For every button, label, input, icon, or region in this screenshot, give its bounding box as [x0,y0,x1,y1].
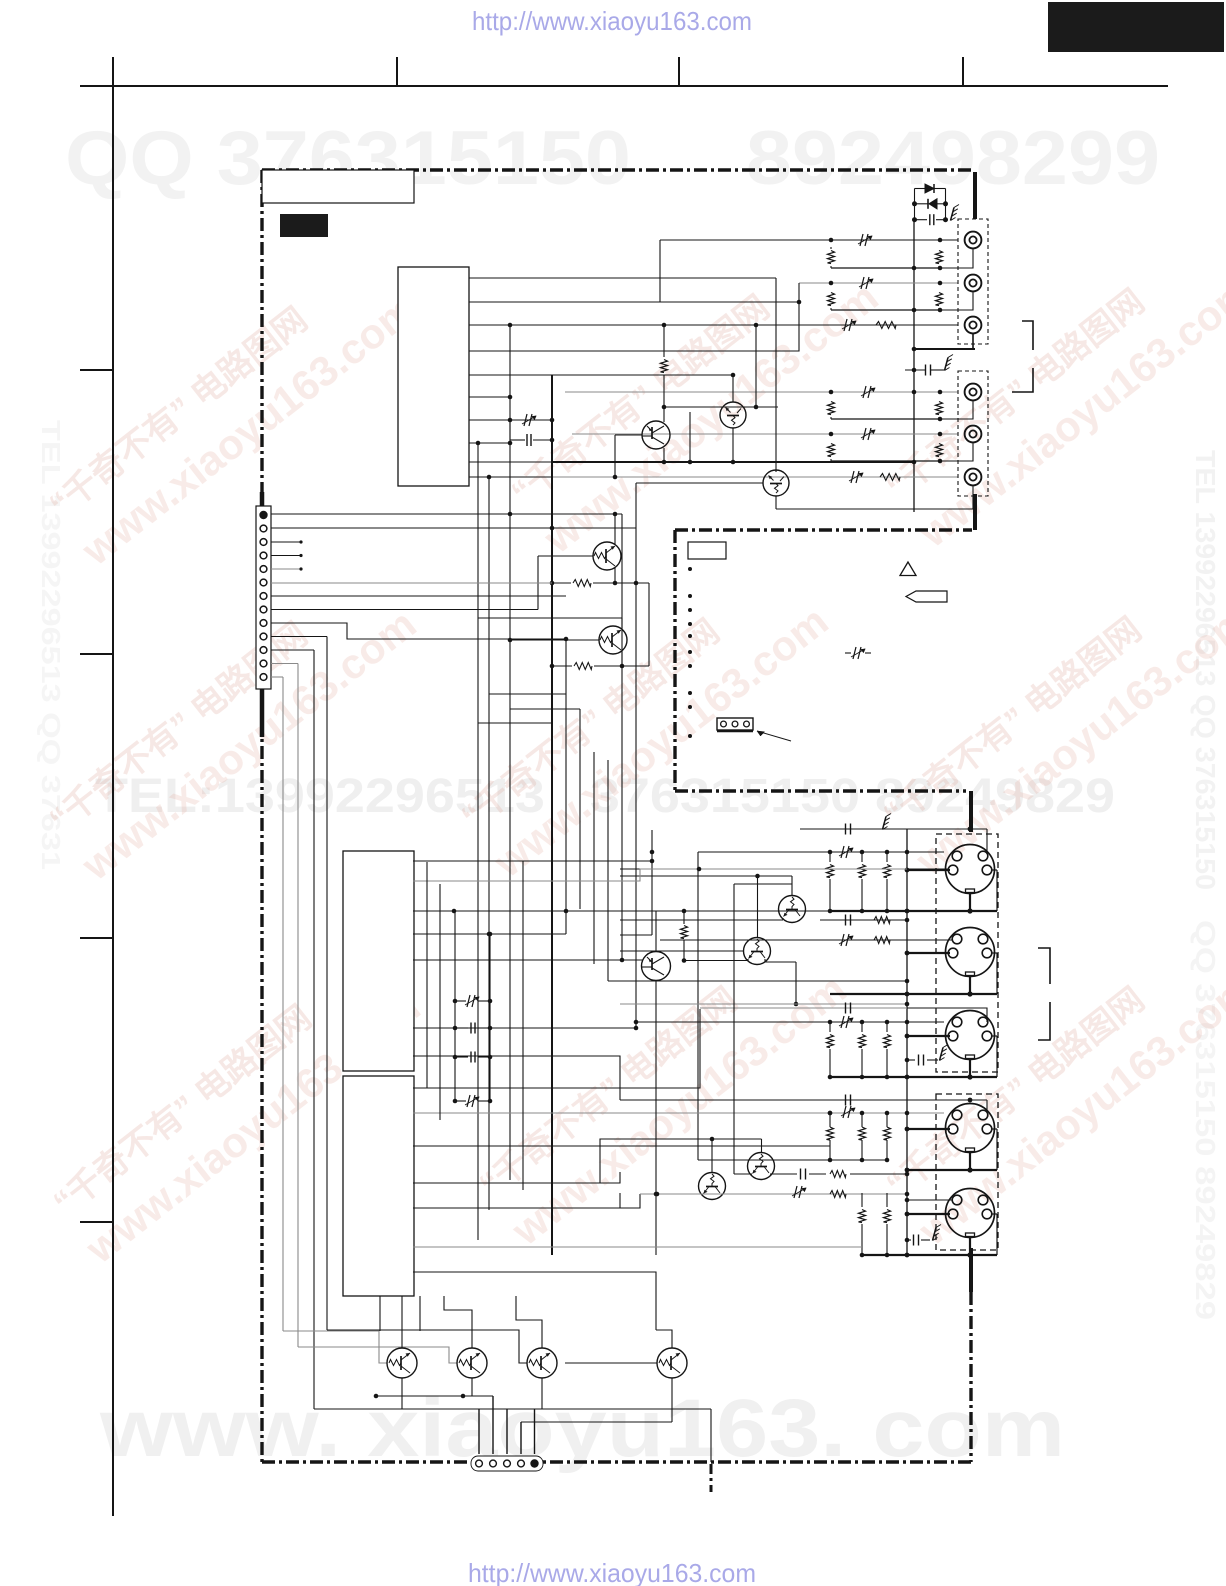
svg-text:http://www.xiaoyu163.com: http://www.xiaoyu163.com [472,6,752,36]
svg-text:QQ 376315150 892498299: QQ 376315150 892498299 [65,116,1160,201]
svg-text:www.xiaoyu163.com: www.xiaoyu163.com [906,595,1226,885]
svg-text:http://www.xiaoyu163.com: http://www.xiaoyu163.com [468,1558,756,1586]
